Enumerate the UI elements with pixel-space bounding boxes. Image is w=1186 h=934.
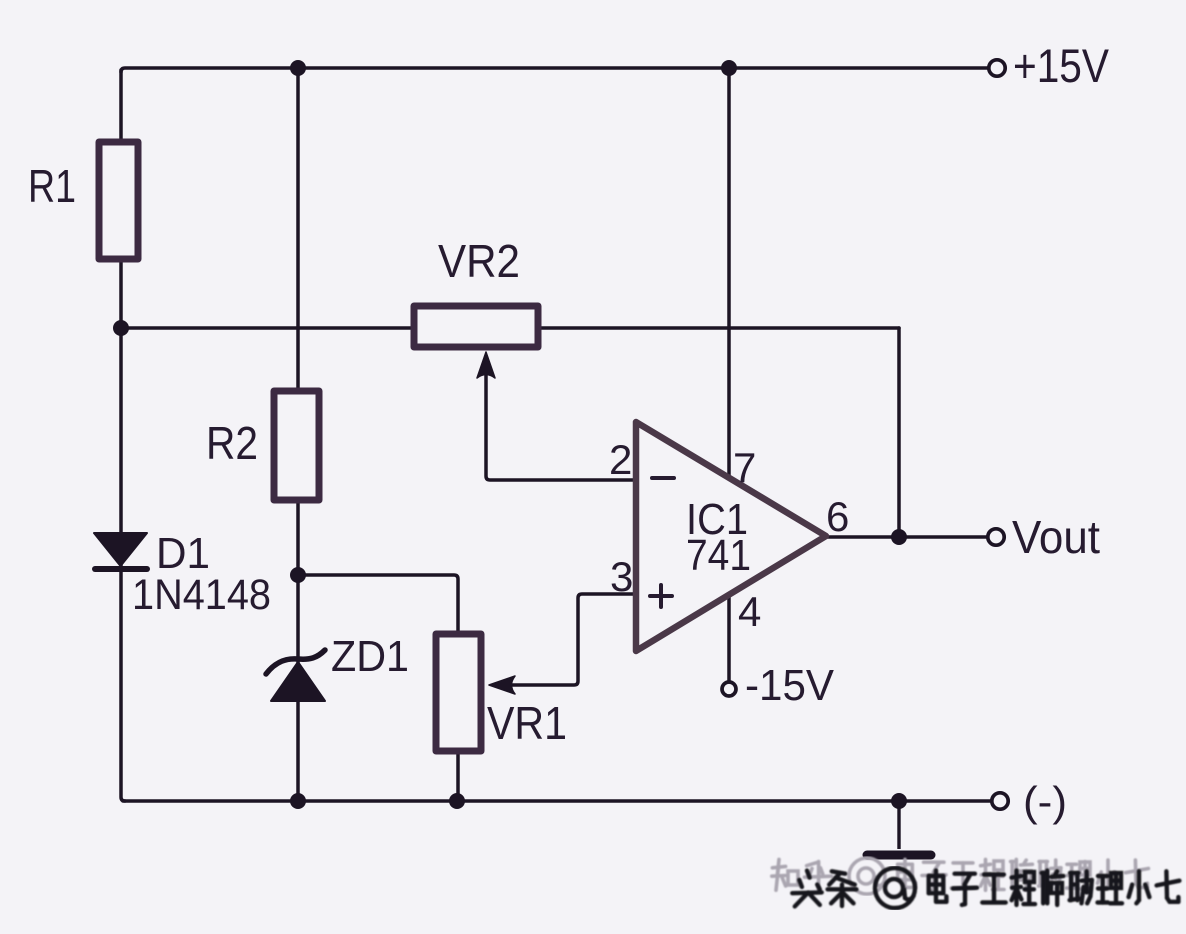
terminal (-) [992,793,1008,809]
svg-text:4: 4 [738,588,761,635]
wire op-amp pin 4 to -15V terminal [727,595,731,681]
wire VR2 wiper to op-amp pin 2 [486,366,636,480]
label ZD1 [331,632,409,681]
wire feedback rail (R1-D1 node to VR2 to output) [121,326,899,330]
wire middle vertical branch (R2/ZD1 branch) [296,68,300,801]
svg-text:741: 741 [686,531,751,580]
junction dot bottom rail / ground [891,793,907,809]
op-amp plus input sign [650,585,672,607]
svg-text:3: 3 [610,553,633,600]
wire bottom (-) rail [123,799,991,803]
svg-text:ZD1: ZD1 [331,632,409,681]
terminal Vout [988,529,1004,545]
svg-text:6: 6 [826,493,849,540]
wire ZD1 node to VR1 top [298,575,458,801]
label VR1 [487,697,567,749]
label 741 [686,531,751,580]
pin label 3 [610,553,633,600]
svg-text:2: 2 [609,436,632,483]
label +15V [1013,39,1110,92]
svg-text:+15V: +15V [1013,39,1110,92]
wire feedback vertical (output node to VR2 rail) [897,328,901,537]
label VR2 [438,235,520,287]
label Vout [1012,511,1100,563]
wire op-amp output to Vout [826,535,988,539]
svg-text:-15V: -15V [745,661,835,710]
svg-text:R1: R1 [28,160,76,212]
watermark black layer (toutiao @ elec engineer assistant xiaoqi) [792,868,1179,908]
resistor R1 [99,142,138,259]
diode D1 [94,533,147,569]
op-amp minus input sign [652,476,674,480]
junction dot R1-D1 node on feedback rail [113,320,129,336]
label R2 [206,417,258,469]
svg-text:Vout: Vout [1012,511,1100,563]
wire op-amp pin 3 to VR1 wiper [497,594,636,685]
label -15V [745,661,835,710]
wire op-amp pin 7 to +15V rail [727,68,731,478]
wiper arrowhead on VR2 [477,352,495,378]
pin label 6 [826,493,849,540]
watermark gray layer (zhihu @ elec engineer assistant xiaoqi) [772,858,1149,894]
label (-) [1023,778,1067,825]
label 1N4148 [132,571,271,619]
pin label 2 [609,436,632,483]
junction dot output node [891,529,907,545]
svg-text:VR1: VR1 [487,697,567,749]
svg-text:1N4148: 1N4148 [132,571,271,619]
pin label 7 [733,444,756,491]
label R1 [28,160,76,212]
wiper arrowhead on VR1 [489,676,515,694]
potentiometer VR1 body [436,634,481,751]
svg-text:R2: R2 [206,417,258,469]
pin label 4 [738,588,761,635]
junction dot top rail / R2 branch [290,60,306,76]
wire top +15V rail [121,68,991,72]
label IC1 [686,495,748,544]
resistor R2 [274,391,319,500]
terminal -15V [722,682,736,696]
ground symbol [867,801,931,855]
svg-text:7: 7 [733,444,756,491]
op-amp IC1 triangle [636,422,826,651]
junction dot bottom rail / ZD1 branch [290,793,306,809]
label D1 [156,529,210,578]
junction dot bottom rail / VR1 branch [449,793,465,809]
junction dot top rail / pin7 branch [721,60,737,76]
terminal +15V [989,60,1005,76]
potentiometer VR2 body [414,306,538,347]
svg-text:(-): (-) [1023,778,1067,825]
junction dot R2/ZD1 node [290,567,306,583]
wire left vertical branch (R1/D1 branch) [121,70,125,801]
zener diode ZD1 [266,650,325,701]
svg-text:VR2: VR2 [438,235,520,287]
